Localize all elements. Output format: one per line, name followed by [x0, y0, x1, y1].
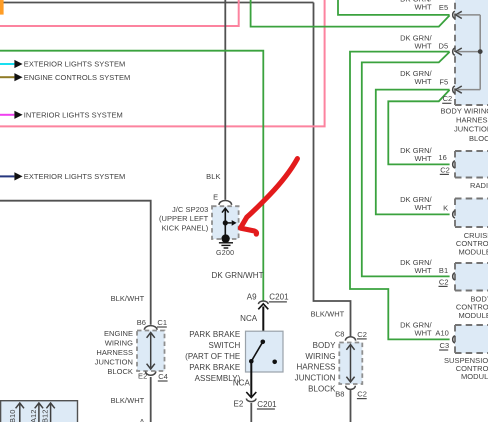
wire DK GRN/WHT E5 direct (from top) — [338, 0, 450, 15]
label row A10 — [400, 320, 449, 350]
SUSPENSION name — [444, 356, 488, 381]
svg-text:BLK/WHT: BLK/WHT — [111, 396, 145, 405]
svg-text:NCA: NCA — [240, 314, 258, 323]
wire DK GRN/WHT F5 second, to RADIO 16 — [388, 90, 449, 164]
wire NCA into switch — [262, 307, 264, 343]
label row B1 — [400, 258, 448, 287]
svg-text:BLOCK: BLOCK — [308, 384, 336, 393]
svg-text:E: E — [213, 193, 218, 202]
magenta INTERIOR LIGHTS stub — [0, 110, 123, 119]
svg-text:BLOCK: BLOCK — [107, 367, 133, 376]
svg-text:WHT: WHT — [414, 3, 432, 12]
pin B12 wire with up arrow — [40, 403, 55, 422]
pin A12 wire with up arrow — [29, 403, 43, 422]
wire below C201 — [250, 403, 252, 422]
pin D5 connector — [453, 48, 481, 55]
svg-text:PARK BRAKE: PARK BRAKE — [189, 363, 240, 372]
svg-text:WHT: WHT — [414, 203, 432, 212]
svg-text:INTERIOR LIGHTS SYSTEM: INTERIOR LIGHTS SYSTEM — [24, 110, 123, 119]
svg-text:JUNCTION: JUNCTION — [454, 125, 488, 134]
wire BLK/WHT left (from left edge) — [0, 201, 151, 325]
svg-text:J/C SP203: J/C SP203 — [172, 205, 208, 214]
pin F5 connector — [453, 86, 481, 93]
svg-text:EXTERIOR LIGHTS SYSTEM: EXTERIOR LIGHTS SYSTEM — [24, 172, 126, 181]
svg-text:C2: C2 — [357, 330, 367, 339]
svg-text:C2: C2 — [439, 277, 449, 286]
svg-text:HARNESS: HARNESS — [96, 348, 133, 357]
label row F5 — [400, 69, 448, 86]
svg-text:C8: C8 — [335, 330, 345, 339]
svg-text:C2: C2 — [440, 165, 450, 174]
svg-text:WHT: WHT — [414, 77, 432, 86]
svg-text:C201: C201 — [269, 293, 289, 302]
ENGINE junction block box — [137, 331, 165, 372]
label E2 / C4 — [138, 372, 168, 381]
svg-text:B1: B1 — [439, 266, 448, 275]
navy EXTERIOR LIGHTS stub — [0, 172, 125, 181]
ground symbol — [219, 243, 233, 248]
wire below B8 — [350, 390, 352, 422]
svg-text:WHT: WHT — [414, 41, 432, 50]
svg-text:HARNESS: HARNESS — [456, 116, 488, 125]
label A9 / C201 — [247, 293, 289, 302]
svg-text:C2: C2 — [443, 94, 453, 103]
svg-text:KICK PANEL): KICK PANEL) — [162, 223, 209, 232]
wire BLK/WHT lower — [150, 377, 152, 422]
svg-text:C4: C4 — [158, 372, 168, 381]
svg-text:F5: F5 — [439, 77, 448, 86]
pin E5 connector — [453, 11, 481, 18]
svg-text:NCA: NCA — [233, 378, 251, 387]
wire NCA below switch — [250, 361, 252, 396]
svg-text:MODULE: MODULE — [459, 311, 488, 320]
svg-text:JUNCTION: JUNCTION — [95, 358, 133, 367]
connector E2/C4 arc — [146, 371, 156, 375]
pin B10 wire with up arrow — [8, 403, 24, 422]
svg-text:SWITCH: SWITCH — [208, 341, 240, 350]
label row 16 — [400, 146, 450, 175]
junction dot on bus — [478, 49, 483, 54]
CRUISE name — [456, 231, 488, 256]
wire DK GRN/WHT D5 second, to BODY CONTROL B1 — [362, 52, 450, 277]
pin 16 connector — [453, 161, 455, 168]
label row D5 — [400, 33, 448, 50]
label ENGINE WIRING HARNESS JUNCTION BLOCK — [95, 329, 133, 376]
label E2 / C201 — [234, 400, 278, 409]
svg-text:(PART OF THE: (PART OF THE — [185, 352, 240, 361]
svg-text:C3: C3 — [440, 341, 450, 350]
red annotation arrow — [240, 159, 297, 235]
connector C201 A9: arc + chevron — [258, 301, 268, 309]
svg-text:BLOCK: BLOCK — [469, 134, 488, 143]
label B6 / C1 — [137, 318, 167, 327]
svg-text:PARK BRAKE: PARK BRAKE — [189, 330, 240, 339]
wire BLK to J/C SP203 (E) — [224, 0, 226, 200]
svg-text:A9: A9 — [247, 293, 257, 302]
BODY junction block box (middle) — [339, 343, 362, 385]
svg-text:G200: G200 — [216, 250, 234, 257]
svg-text:JUNCTION: JUNCTION — [295, 374, 336, 383]
svg-text:16: 16 — [438, 153, 446, 162]
svg-text:WHT: WHT — [414, 266, 432, 275]
label PARK BRAKE SWITCH — [185, 330, 240, 383]
label B8 / C2 — [335, 389, 367, 398]
svg-text:C201: C201 — [257, 400, 277, 409]
svg-text:MODULE: MODULE — [461, 372, 488, 381]
svg-text:DK GRN/WHT: DK GRN/WHT — [212, 271, 264, 280]
wire BLK horizontal top — [0, 2, 314, 4]
park brake switch box — [246, 331, 284, 372]
svg-text:BLK: BLK — [206, 172, 220, 181]
svg-text:RADIO: RADIO — [470, 181, 488, 190]
svg-text:B6: B6 — [137, 318, 146, 327]
CRUISE box — [455, 199, 488, 228]
pink wire L2 — [0, 0, 325, 126]
svg-text:WIRING: WIRING — [105, 339, 133, 348]
svg-text:HARNESS: HARNESS — [296, 363, 335, 372]
svg-text:B8: B8 — [335, 389, 344, 398]
label row K — [400, 195, 448, 212]
connector E arc — [219, 201, 232, 205]
svg-text:E2: E2 — [138, 372, 147, 381]
connector C201 E2: chevron + arc — [246, 392, 256, 402]
svg-text:A: A — [139, 417, 144, 422]
olive ENGINE CONTROLS stub — [0, 73, 130, 82]
BODY CONTROL name — [456, 295, 488, 320]
svg-text:BODY: BODY — [313, 341, 336, 350]
svg-text:A12: A12 — [29, 410, 38, 422]
internal wire with arrows both ends — [346, 345, 354, 383]
svg-text:ENGINE: ENGINE — [104, 329, 133, 338]
wire BLK/WHT jog to C8 — [314, 3, 351, 337]
BW junction block box (top right) — [455, 0, 488, 105]
wire DK GRN/WHT E5 second — [251, 0, 450, 27]
RADIO box — [455, 151, 488, 178]
svg-text:E5: E5 — [439, 3, 448, 12]
pin A10 connector — [453, 336, 455, 343]
switch contacts — [249, 340, 277, 365]
label row E5 — [400, 0, 448, 12]
svg-text:ENGINE CONTROLS SYSTEM: ENGINE CONTROLS SYSTEM — [24, 73, 131, 82]
pin K connector — [453, 211, 455, 218]
bottom-left connector block — [1, 401, 78, 422]
orange wire stub top-left — [0, 0, 4, 15]
SUSPENSION box — [455, 325, 488, 353]
BW junction block name — [441, 106, 488, 143]
svg-text:C1: C1 — [157, 318, 167, 327]
wire DK GRN/WHT D5 direct, continues to SUSPENSION A10 — [350, 52, 450, 340]
svg-text:BODY WIRING: BODY WIRING — [441, 106, 488, 115]
cyan EXTERIOR LIGHTS stub — [0, 60, 125, 69]
wire DK GRN/WHT F5 direct, to CRUISE K — [376, 90, 450, 215]
svg-text:WIRING: WIRING — [305, 352, 335, 361]
svg-text:A10: A10 — [435, 328, 449, 337]
svg-text:K: K — [443, 203, 448, 212]
svg-text:C2: C2 — [357, 390, 367, 399]
pink wire L1 — [0, 0, 239, 26]
svg-text:MODULE: MODULE — [459, 247, 488, 256]
connector B6/C1 arc — [144, 326, 157, 330]
label J/C SP203 — [159, 205, 209, 232]
J/C internal wire with up arrow — [222, 208, 229, 239]
svg-text:E2: E2 — [234, 400, 244, 409]
internal bus wire — [479, 15, 481, 90]
connector C8/C2 arc — [345, 337, 355, 341]
wire DK GRN/WHT park brake (A9) — [0, 51, 263, 301]
svg-text:D5: D5 — [439, 42, 449, 51]
ground dot G200 — [221, 234, 229, 242]
label C8 / C2 — [335, 330, 367, 339]
connector id C2 (BW junction block) — [442, 94, 452, 103]
svg-text:B10: B10 — [8, 410, 17, 422]
svg-text:BLK/WHT: BLK/WHT — [311, 310, 345, 319]
pin B1 connector — [453, 273, 455, 280]
svg-text:EXTERIOR LIGHTS SYSTEM: EXTERIOR LIGHTS SYSTEM — [24, 60, 126, 69]
BODY CONTROL box — [455, 263, 488, 291]
svg-text:WHT: WHT — [414, 154, 432, 163]
connector B8/C2 arc — [346, 386, 356, 390]
svg-text:B12: B12 — [40, 410, 49, 422]
internal wire with arrows both ends — [147, 333, 155, 370]
label BODY WIRING HARNESS JUNCTION BLOCK (middle) — [295, 341, 336, 393]
svg-text:WHT: WHT — [414, 328, 432, 337]
svg-text:(UPPER LEFT: (UPPER LEFT — [159, 214, 209, 223]
svg-text:BLK/WHT: BLK/WHT — [111, 294, 145, 303]
J/C junction dot with right arrow — [223, 220, 237, 226]
J/C SP203 junction box — [212, 206, 239, 239]
